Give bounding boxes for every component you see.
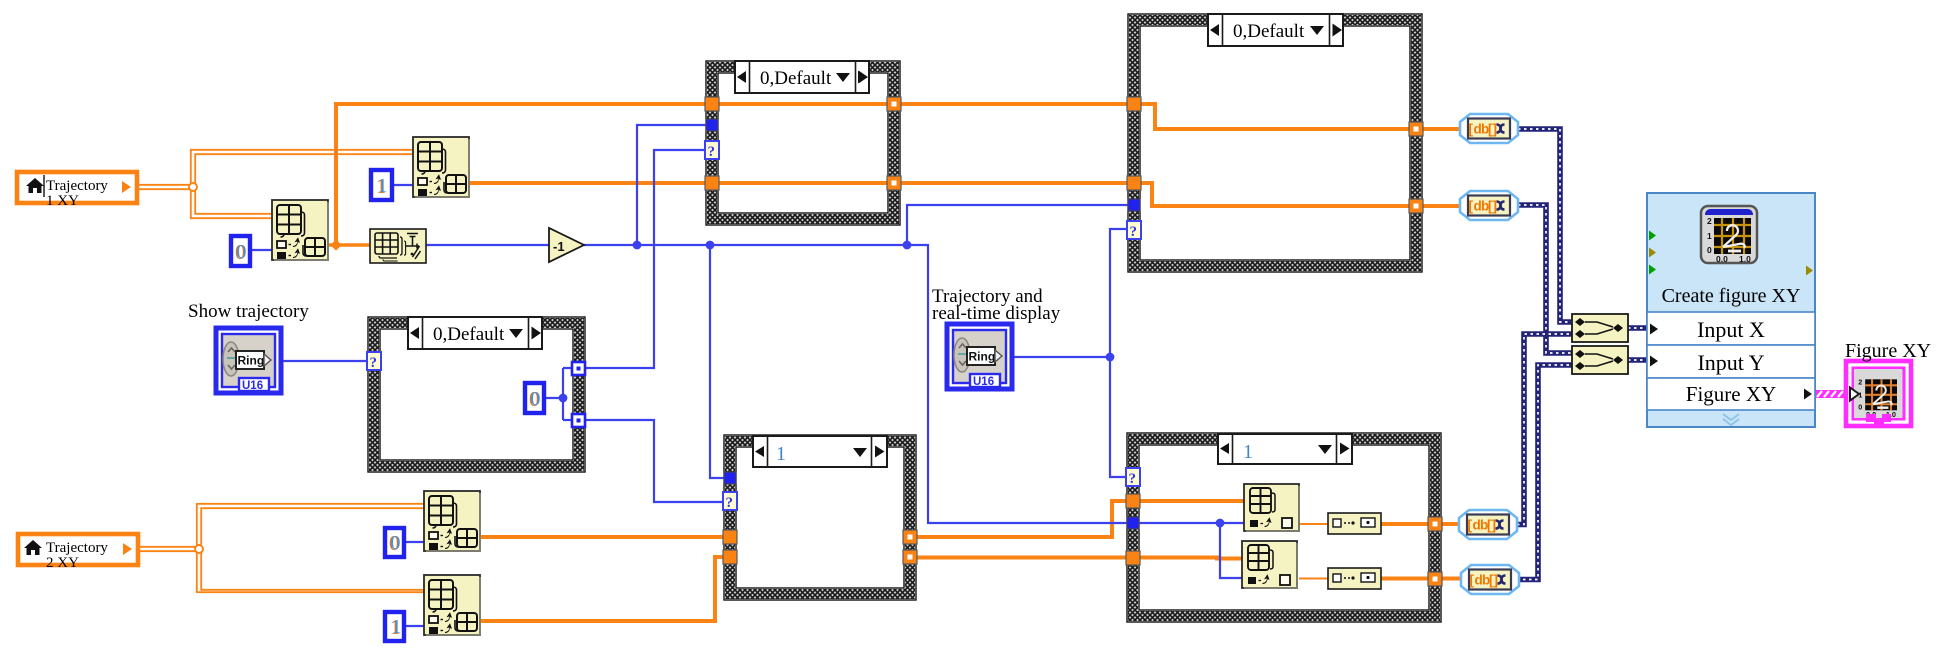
case C4 selector label "1" [753, 436, 887, 467]
wire: double branch up to index2 [191, 150, 413, 187]
wire: constant 1 to index2 [394, 184, 413, 186]
constant 1 (top) [371, 170, 392, 200]
tunnel C5 left blue solid [1127, 517, 1139, 529]
constant 0 (bottom) [385, 528, 404, 557]
tunnel C2 right orange out 2 [1409, 199, 1423, 213]
wire: transpose to negate triangle [426, 244, 549, 246]
svg-text:1 XY: 1 XY [46, 193, 79, 209]
tunnel C5 right orange out 2 [1428, 572, 1442, 586]
wire: orange riser x=336 [334, 104, 338, 245]
tunnel C5 selector ? [1126, 468, 1140, 486]
svg-text:0,Default: 0,Default [433, 324, 505, 345]
transpose 2D array node [370, 229, 426, 263]
tunnel C1 selector ? [705, 141, 719, 159]
case structure C3 frame (middle left, 0,Default) [368, 317, 585, 472]
svg-text:2 XY: 2 XY [46, 555, 79, 571]
wire: ring1 to C3 selector [281, 360, 368, 362]
svg-text:0: 0 [391, 532, 401, 554]
wire: Trajectory1 double array wire to junction [137, 150, 413, 218]
svg-text:Figure XY: Figure XY [1845, 340, 1931, 362]
wire: double branch down to index1 [191, 187, 272, 218]
svg-text:Input X: Input X [1697, 317, 1765, 342]
index array node 1 [272, 200, 328, 260]
negate triangle -1 [549, 228, 584, 262]
converter node D (case5 lower) [1328, 568, 1381, 589]
wire: C5 inner orange to nodeC [1133, 558, 1242, 559]
DDT wire pill4 to merge2 in2 [1517, 365, 1572, 580]
tunnel C3 right blue out 1 [572, 362, 585, 375]
tunnel C4 left orange 1 [723, 530, 737, 544]
wire: orange bus y=104 into C1,C2 [334, 102, 1141, 106]
ring control Show trajectory [216, 328, 281, 393]
svg-text:Show trajectory: Show trajectory [188, 301, 309, 322]
tunnel C3 right blue out 2 [572, 414, 585, 427]
wire: constant 1 to index4 [406, 625, 424, 627]
svg-text:1: 1 [378, 175, 388, 197]
tunnel C4 right orange out 2 [903, 550, 917, 564]
tunnel C4 right orange out 1 [903, 530, 917, 544]
index array node 2 [413, 137, 469, 197]
constant 0 (top) [231, 236, 250, 266]
terminal Trajectory 2 XY [18, 534, 138, 571]
terminal Trajectory 1 XY [17, 172, 137, 209]
tunnel C5 right orange out 1 [1428, 517, 1442, 531]
case structure C2 frame (top right, 0,Default) [1128, 14, 1422, 272]
wire: double branch up to index3 [197, 504, 424, 549]
tunnel C1 left orange 2 [705, 176, 719, 190]
DDT wire pill3 to merge1 in2 [1517, 334, 1572, 525]
wire: converter B to C5 right tunnel and pill3 [1381, 522, 1461, 526]
svg-text:?: ? [1130, 224, 1138, 240]
reshape node C (case5 lower) [1242, 541, 1297, 588]
junction: orange at 336,245 [330, 239, 341, 250]
wire: constant 0 to index3 [406, 541, 424, 543]
tunnel C2 right orange out 1 [1409, 122, 1423, 136]
wire: C2 inner upper step to right tunnel and pill1 [1141, 104, 1460, 129]
svg-text:0,Default: 0,Default [1233, 21, 1305, 42]
Figure XY indicator [1846, 361, 1911, 426]
wire: C5 inner blue to nodeA and nodeC [1139, 523, 1244, 578]
svg-text:?: ? [708, 144, 716, 160]
svg-text:real-time display: real-time display [932, 303, 1061, 324]
tunnel C3 selector ? [367, 352, 381, 370]
svg-text:Input Y: Input Y [1697, 350, 1764, 375]
svg-text:1: 1 [1243, 441, 1253, 463]
tunnel C4 selector ? [723, 492, 737, 510]
tunnel C2 left orange 2 [1127, 176, 1141, 190]
svg-text:2: 2 [1858, 377, 1862, 386]
wire: branch to C4 blue tunnel [710, 245, 724, 478]
tunnel C4 left blue solid [724, 472, 736, 484]
DDT wire pill2 to merge2 in1 [1518, 205, 1572, 353]
wire: C3 inner constant to tunnels [546, 368, 572, 420]
constant 0 inside C3 [525, 383, 544, 413]
tunnel C2 selector ? [1127, 221, 1141, 239]
ring control Trajectory and real-time display [947, 324, 1012, 389]
wire: C3 out2 down to C4 selector ? [585, 420, 724, 502]
svg-text:Figure XY: Figure XY [1686, 382, 1776, 406]
tunnel C5 left orange 2 [1126, 551, 1140, 565]
wire: branch to C1 blue tunnel [637, 125, 706, 245]
svg-text:-1: -1 [553, 239, 565, 254]
svg-text:?: ? [370, 355, 378, 371]
reshape node A (case5 upper) [1244, 484, 1299, 531]
svg-text:0,Default: 0,Default [760, 68, 832, 89]
case structure C1 frame (top middle, 0,Default) [706, 61, 900, 225]
case C3 selector label "0,Default" [408, 317, 542, 349]
tunnel C1 right orange out 2 [887, 176, 901, 190]
case C1 selector label "0,Default" [735, 61, 869, 93]
svg-text:?: ? [1129, 471, 1137, 487]
wire: ring2 to junction and C2/C5 selectors [1012, 229, 1134, 477]
wire: index4 output up to C4 tunnel2 [481, 557, 731, 621]
wire: nodeC to converter D thin [1299, 578, 1328, 580]
svg-text:Create figure XY: Create figure XY [1662, 285, 1801, 307]
tunnel C2 left orange 1 [1127, 97, 1141, 111]
To DDT pill 4 [1461, 565, 1519, 594]
wire: double branch down to index4 [197, 549, 424, 592]
wire: Trajectory2 double array wire to junction [139, 504, 424, 592]
pink wire Figure XY output to indicator [1815, 390, 1846, 398]
tunnel C1 left blue solid [706, 119, 718, 131]
wire: index1 output to transpose [327, 243, 371, 247]
svg-text:Trajectory: Trajectory [46, 540, 108, 556]
tunnel C4 left orange 2 [723, 550, 737, 564]
constant 1 (bottom) [385, 612, 404, 641]
svg-text:?: ? [726, 495, 734, 511]
wire: C2 inner lower step to right tunnel and pill2 [1141, 183, 1462, 206]
svg-text:1: 1 [392, 616, 402, 638]
DDT wire pill1 to merge1 in1 [1517, 129, 1647, 580]
svg-text:1: 1 [776, 443, 786, 465]
tunnel C1 left orange 1 [705, 97, 719, 111]
DDT wire merge2 to Input Y [1628, 357, 1647, 363]
svg-text:Trajectory: Trajectory [46, 178, 108, 194]
wire: constant 0 to index1 [251, 249, 272, 251]
To DDT pill 1 [1460, 114, 1518, 143]
wire: index3 output to C4 tunnel [481, 535, 731, 539]
TUNNELS [367, 97, 1442, 586]
case structure C4 frame (bottom middle, 1) [724, 435, 916, 600]
junction dots blue [559, 241, 1225, 528]
case C5 selector label "1" [1218, 434, 1352, 464]
wire: C4 out1 to C5 tunnel1 [903, 501, 1133, 537]
junction: trajectory1 split [189, 183, 197, 191]
wire: C4 out2 to C5 tunnel2 [903, 556, 1133, 560]
wire: nodeA to converter B thin [1299, 523, 1328, 525]
tunnel C5 left orange 1 [1126, 494, 1140, 508]
index array node 4 [424, 575, 480, 635]
To DDT pill 3 [1459, 510, 1517, 539]
junction: trajectory2 split [195, 545, 203, 553]
wire: C3 out1 up to C1 selector ? [585, 150, 706, 368]
tunnel C2 left blue solid [1128, 199, 1140, 211]
wire: C5 inner orange to nodeA [1133, 499, 1244, 503]
wire: branch to C2 blue tunnel [907, 205, 1134, 245]
DDT wire merge1 to Input X [1628, 325, 1647, 331]
Create figure XY express VI [1647, 193, 1815, 427]
case structure C5 frame (bottom right, 1) [1127, 433, 1441, 622]
case C2 selector label "0,Default" [1208, 14, 1343, 46]
svg-text:0: 0 [237, 241, 247, 263]
wire: negate output main blue run to C5 blue tunnel [584, 245, 1139, 523]
wire: index2 output y=183 into C1,C2 [469, 181, 1141, 185]
merge signals 2 [1572, 346, 1628, 374]
svg-text:0: 0 [1858, 402, 1862, 411]
tunnel C1 right orange out 1 [887, 97, 901, 111]
To DDT pill 2 [1460, 191, 1518, 220]
wire: converter D to C5 right tunnel and pill4 [1381, 577, 1463, 581]
index array node 3 [424, 491, 480, 551]
svg-text:0: 0 [531, 388, 541, 410]
merge signals 1 [1572, 314, 1628, 342]
converter node B (case5 upper) [1328, 513, 1381, 534]
